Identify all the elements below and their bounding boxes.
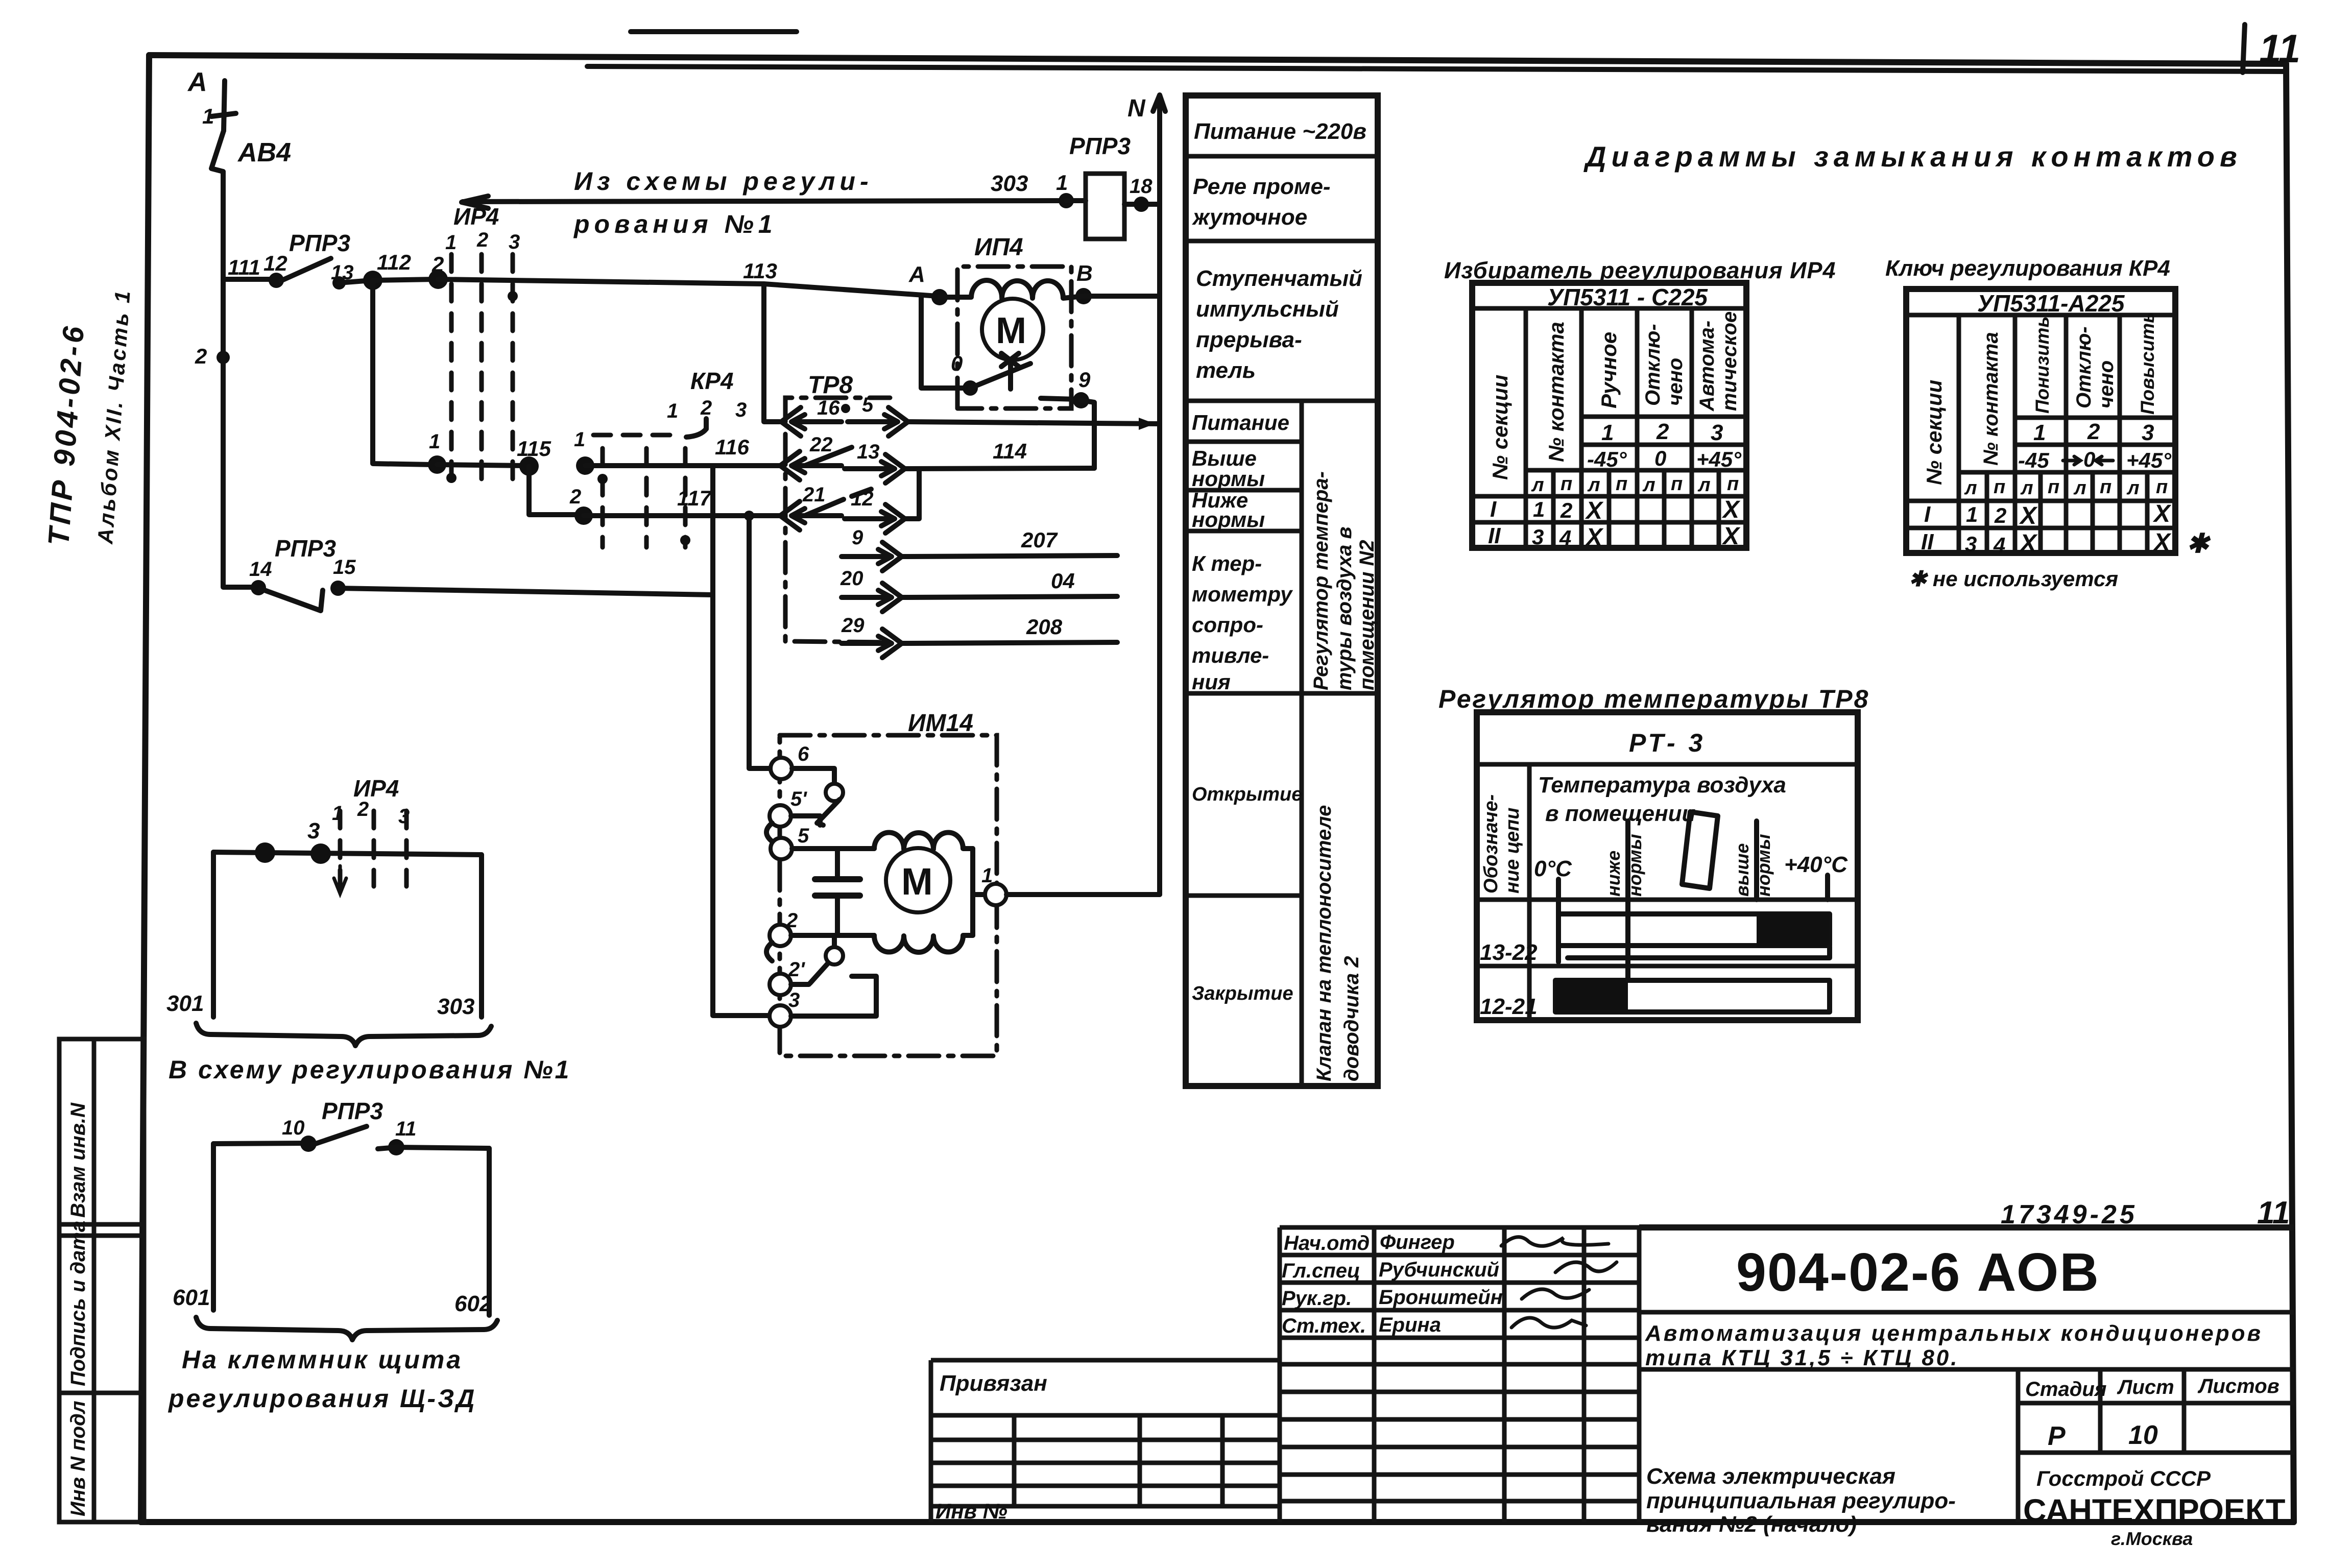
KR4 row1 node dot bbox=[576, 456, 594, 475]
upper winding of motor bbox=[874, 833, 973, 849]
rt3 header line bbox=[1477, 762, 1858, 767]
contact 21 blade bbox=[805, 499, 844, 516]
svg-text:Реле проме-: Реле проме- bbox=[1193, 174, 1331, 199]
small dot on IR4 column 3 bbox=[508, 291, 518, 301]
svg-text:нормы: нормы bbox=[1192, 508, 1265, 532]
contact RPR3 10-11 blade bbox=[313, 1126, 367, 1145]
terminal 1 circle bbox=[985, 884, 1006, 905]
svg-text:117: 117 bbox=[677, 486, 712, 510]
motor M of IP4 bbox=[982, 299, 1043, 360]
row line under thermometer bbox=[1186, 691, 1378, 696]
svg-text:1: 1 bbox=[445, 231, 457, 254]
table1 mini columns bbox=[1553, 470, 1719, 548]
terminal 2 circle bbox=[770, 925, 791, 946]
svg-text:3: 3 bbox=[1711, 420, 1723, 445]
terminal 6 circle bbox=[771, 758, 792, 779]
left margin vertical captions bbox=[42, 288, 135, 547]
svg-text:N: N bbox=[1127, 95, 1146, 122]
svg-text:п: п bbox=[2156, 476, 2168, 498]
signature table rows bbox=[1280, 1255, 1639, 1501]
node dot 9 bbox=[1073, 392, 1089, 408]
svg-text:6: 6 bbox=[798, 743, 809, 765]
svg-text:+45°: +45° bbox=[1696, 447, 1742, 471]
svg-text:116: 116 bbox=[715, 435, 750, 459]
svg-text:Схема электрическая: Схема электрическая bbox=[1646, 1464, 1895, 1489]
terminal 5 circle bbox=[771, 838, 792, 859]
svg-text:12-21: 12-21 bbox=[1480, 994, 1538, 1019]
wire loop2 top left bbox=[213, 1143, 305, 1144]
svg-text:3: 3 bbox=[307, 818, 320, 843]
svg-text:Обозначе-: Обозначе- bbox=[1480, 794, 1502, 894]
svg-text:2: 2 bbox=[2087, 419, 2100, 444]
svg-text:4: 4 bbox=[1559, 526, 1571, 550]
rt3 row line 1 bbox=[1477, 898, 1858, 902]
wire bus 111 bbox=[223, 277, 272, 282]
IP4 stator coil bbox=[940, 280, 1084, 298]
wire 117 bbox=[584, 513, 780, 518]
line under stage row bbox=[2018, 1451, 2294, 1455]
svg-text:11: 11 bbox=[395, 1118, 417, 1140]
svg-text:помещении N2: помещении N2 bbox=[1356, 540, 1378, 690]
wire 207 bbox=[902, 556, 1117, 557]
svg-text:Из схемы регули-: Из схемы регули- bbox=[574, 167, 873, 196]
svg-text:5: 5 bbox=[798, 825, 809, 847]
table2 column lines bbox=[1959, 315, 2120, 553]
svg-text:21: 21 bbox=[802, 484, 826, 506]
svg-text:18: 18 bbox=[1130, 175, 1153, 198]
wire N line bbox=[1157, 98, 1162, 895]
lower IR4 row node dot 1 bbox=[428, 455, 446, 474]
svg-text:2: 2 bbox=[195, 344, 207, 368]
svg-text:Взам инв.N: Взам инв.N bbox=[67, 1102, 89, 1218]
IP4 left bracket to 0 bbox=[921, 297, 964, 388]
contact 22 blade bbox=[805, 447, 852, 466]
svg-text:САНТЕХПРОЕКТ: САНТЕХПРОЕКТ bbox=[2023, 1493, 2285, 1529]
svg-text:2: 2 bbox=[1656, 419, 1669, 444]
svg-text:13-22: 13-22 bbox=[1480, 940, 1538, 965]
TP8 pin 21 arrow bbox=[780, 501, 800, 530]
svg-text:л: л bbox=[1642, 474, 1655, 496]
IM14 dash-dot box bbox=[780, 735, 997, 1056]
svg-text:0: 0 bbox=[1654, 446, 1666, 470]
svg-text:АВ4: АВ4 bbox=[237, 138, 291, 167]
svg-text:13: 13 bbox=[857, 441, 880, 463]
rt3 outer box bbox=[1477, 712, 1858, 1020]
wire 116 bbox=[585, 463, 780, 468]
svg-text:Отклю-: Отклю- bbox=[1642, 324, 1664, 406]
svg-text:X: X bbox=[1585, 497, 1604, 524]
rt3 row line 2 bbox=[1477, 964, 1858, 969]
wire loop1 top bbox=[213, 852, 482, 855]
svg-text:9: 9 bbox=[852, 526, 863, 549]
svg-text:л: л bbox=[1531, 474, 1544, 496]
table1 sub rows bbox=[1581, 417, 1746, 445]
svg-text:301: 301 bbox=[166, 991, 204, 1016]
svg-text:л: л bbox=[2126, 477, 2140, 499]
wire 04 bbox=[902, 596, 1117, 597]
svg-text:2: 2 bbox=[569, 486, 581, 508]
row line under relay bbox=[1186, 239, 1378, 244]
svg-text:2: 2 bbox=[431, 252, 444, 276]
wire 208 bbox=[902, 642, 1117, 643]
svg-text:II: II bbox=[1921, 529, 1934, 554]
svg-text:туры воздуха в: туры воздуха в bbox=[1333, 526, 1356, 690]
svg-text:№ секции: № секции bbox=[1922, 380, 1946, 485]
IR4 lower dashed columns bbox=[338, 811, 343, 886]
svg-text:п: п bbox=[1616, 473, 1627, 495]
contact RPR3 14-15 blade bbox=[260, 589, 323, 611]
svg-text:нормы: нормы bbox=[1192, 467, 1265, 491]
node dot 12 bbox=[269, 273, 284, 288]
node dot 14 bbox=[251, 580, 266, 595]
svg-text:А: А bbox=[187, 67, 207, 97]
svg-text:На клеммник щита: На клеммник щита bbox=[182, 1345, 463, 1374]
svg-text:2: 2 bbox=[476, 229, 488, 251]
svg-text:Избиратель регулирования ИР4: Избиратель регулирования ИР4 bbox=[1444, 257, 1836, 283]
svg-text:Гл.спец: Гл.спец bbox=[1282, 1260, 1360, 1282]
svg-text:№ секции: № секции bbox=[1488, 375, 1512, 480]
svg-text:мометру: мометру bbox=[1192, 582, 1293, 606]
svg-text:г.Москва: г.Москва bbox=[2111, 1528, 2193, 1549]
contact RPR3 12-13 blade bbox=[281, 258, 331, 281]
pinned rows bbox=[931, 1415, 1280, 1506]
svg-text:Листов: Листов bbox=[2197, 1375, 2279, 1397]
page number 11 top right bbox=[2243, 25, 2300, 73]
wire bus 113 across IR4 bbox=[438, 279, 938, 296]
relay coil RPR3 bbox=[1086, 174, 1124, 239]
wire drop 117 down to IM14 pin6 bbox=[749, 516, 770, 768]
svg-text:чено: чено bbox=[1664, 358, 1687, 406]
svg-text:3: 3 bbox=[1965, 532, 1977, 556]
left margin stamp boxes bbox=[59, 1039, 144, 1522]
svg-text:М: М bbox=[996, 310, 1026, 351]
svg-text:УП5311-А225: УП5311-А225 bbox=[1977, 290, 2125, 317]
svg-text:1: 1 bbox=[1601, 420, 1614, 445]
svg-text:принципиальная регулиро-: принципиальная регулиро- bbox=[1646, 1488, 1956, 1513]
svg-text:Питание ~220в: Питание ~220в bbox=[1194, 119, 1366, 144]
svg-text:Ручное: Ручное bbox=[1597, 332, 1621, 408]
row line under nizhe bbox=[1186, 529, 1302, 534]
svg-text:Регулятор температуры ТР8: Регулятор температуры ТР8 bbox=[1438, 685, 1869, 713]
svg-text:-45°: -45° bbox=[1587, 447, 1627, 471]
junction dot on 117 bbox=[744, 511, 754, 521]
svg-text:X: X bbox=[1721, 523, 1741, 550]
capacitor C plates bbox=[815, 879, 860, 896]
row line under power bbox=[1186, 154, 1378, 159]
upper switch circle bbox=[826, 784, 843, 801]
svg-text:X: X bbox=[1721, 496, 1741, 523]
svg-text:Фингер: Фингер bbox=[1380, 1231, 1455, 1253]
svg-text:Р: Р bbox=[2048, 1421, 2066, 1451]
node dot A bbox=[931, 289, 948, 305]
svg-text:1: 1 bbox=[1533, 497, 1545, 521]
svg-text:ИМ14: ИМ14 bbox=[908, 710, 973, 737]
svg-text:РПР3: РПР3 bbox=[275, 535, 336, 562]
node dot 2 bbox=[217, 351, 230, 364]
table2 outer box bbox=[1906, 289, 2175, 553]
table2 temp arrows bbox=[2063, 456, 2080, 465]
svg-text:29: 29 bbox=[841, 614, 865, 637]
svg-text:Регулятор темпера-: Регулятор темпера- bbox=[1310, 471, 1332, 690]
svg-text:II: II bbox=[1488, 523, 1501, 548]
lower winding of motor bbox=[874, 935, 973, 952]
svg-text:тическое: тическое bbox=[1718, 311, 1741, 411]
link arc 2-2' bbox=[766, 943, 772, 961]
table1 outer box bbox=[1472, 283, 1746, 548]
wire terminal 1 to N bbox=[1006, 892, 1160, 897]
svg-text:Закрытие: Закрытие bbox=[1192, 983, 1293, 1004]
svg-text:1: 1 bbox=[1966, 502, 1978, 526]
svg-text:0°С: 0°С bbox=[1534, 856, 1572, 881]
rt3 bar 13-22 baseline bbox=[1568, 947, 1830, 958]
rt3 tick vyshe bbox=[1754, 821, 1759, 900]
svg-text:10: 10 bbox=[2128, 1420, 2158, 1450]
stage columns bbox=[2018, 1369, 2184, 1522]
svg-text:20: 20 bbox=[840, 567, 863, 590]
wire loop2 right leg 602 bbox=[487, 1148, 492, 1315]
stamp line under theme bbox=[1639, 1367, 2294, 1372]
svg-text:5': 5' bbox=[790, 788, 807, 810]
svg-text:Ключ регулирования КР4: Ключ регулирования КР4 bbox=[1885, 256, 2170, 281]
node dot 2 on bus bbox=[428, 270, 448, 289]
wire bus 112 to IR4 bbox=[373, 279, 435, 280]
row line under interrupter bbox=[1186, 399, 1378, 403]
svg-text:10: 10 bbox=[282, 1117, 305, 1139]
wire terminal 2' stub bbox=[791, 982, 809, 987]
svg-text:4: 4 bbox=[1993, 533, 2005, 557]
terminal 2' circle bbox=[770, 974, 791, 995]
wire drop 113 to TP8 pin 16 bbox=[764, 284, 780, 422]
svg-text:чено: чено bbox=[2095, 360, 2118, 408]
down arrow on col1 bbox=[334, 866, 346, 894]
svg-text:К тер-: К тер- bbox=[1192, 551, 1262, 575]
small dot on KR4 col3 bbox=[680, 535, 690, 545]
wire loop1 right leg 303 bbox=[479, 855, 484, 1017]
wire phase A drop bbox=[224, 81, 225, 131]
svg-text:ниже: ниже bbox=[1603, 851, 1624, 897]
node dot on loop1 bbox=[255, 842, 275, 863]
svg-text:112: 112 bbox=[377, 250, 411, 274]
svg-text:в помещении: в помещении bbox=[1545, 801, 1696, 826]
svg-text:2: 2 bbox=[1560, 498, 1572, 522]
svg-text:114: 114 bbox=[993, 439, 1027, 463]
brace under loop1 bbox=[196, 1023, 491, 1046]
wire 114 bbox=[905, 468, 1094, 469]
svg-text:ния: ния bbox=[1192, 670, 1231, 694]
rt3 bar 13-22 fill bbox=[1757, 913, 1830, 947]
rt3 bar 12-21 fill bbox=[1555, 979, 1628, 1013]
wire AB4 down to contact 14 bbox=[223, 172, 254, 587]
node dot 10 bbox=[300, 1136, 317, 1152]
svg-text:ИП4: ИП4 bbox=[974, 234, 1023, 261]
svg-text:602: 602 bbox=[454, 1291, 492, 1316]
terminal 3 circle bbox=[770, 1005, 791, 1027]
breaker AB4 blade bbox=[211, 131, 224, 172]
main stamp outer bbox=[1639, 1224, 2294, 1231]
node dot 112 bbox=[363, 271, 382, 290]
node dot 3 on loop1 bbox=[310, 843, 331, 864]
svg-text:выше: выше bbox=[1732, 843, 1753, 897]
svg-text:904-02-6 АОВ: 904-02-6 АОВ bbox=[1736, 1242, 2100, 1302]
svg-text:3: 3 bbox=[509, 231, 520, 253]
rt3 tick nizhe bbox=[1625, 821, 1630, 900]
svg-text:Ступенчатый: Ступенчатый bbox=[1196, 266, 1362, 291]
wire terminal 2 to coil bbox=[791, 933, 874, 938]
svg-text:Питание: Питание bbox=[1192, 411, 1289, 435]
svg-text:601: 601 bbox=[173, 1285, 210, 1310]
svg-text:Бронштейн: Бронштейн bbox=[1379, 1286, 1503, 1309]
stage header line bbox=[2018, 1401, 2294, 1406]
svg-text:п: п bbox=[1994, 476, 2005, 498]
wire to coil bbox=[1066, 198, 1086, 203]
wire B to N bbox=[1084, 294, 1160, 299]
svg-text:303: 303 bbox=[437, 994, 474, 1019]
node dot 18 bbox=[1134, 197, 1149, 212]
svg-text:111: 111 bbox=[228, 255, 260, 279]
rt3 bar 13-22 outline bbox=[1558, 914, 1830, 946]
svg-text:вания №2 (начало): вания №2 (начало) bbox=[1646, 1512, 1857, 1537]
row line under otkrytie bbox=[1186, 894, 1302, 898]
svg-text:№ контакта: № контакта bbox=[1980, 332, 2002, 466]
svg-text:Понизить: Понизить bbox=[2032, 316, 2053, 414]
lower switch circle bbox=[826, 947, 843, 964]
svg-text:РПР3: РПР3 bbox=[1069, 133, 1131, 159]
wire terminal 5' stub bbox=[791, 816, 820, 825]
svg-text:п: п bbox=[1561, 473, 1572, 495]
svg-text:л: л bbox=[1697, 474, 1711, 496]
svg-text:113: 113 bbox=[743, 259, 777, 283]
IP4 dash-dot box bbox=[957, 267, 1071, 408]
node dot B bbox=[1075, 288, 1092, 304]
fixed contact wire to 9 bbox=[1041, 398, 1076, 399]
wire 5 to N line bbox=[908, 422, 1160, 424]
rt3 tick +40 bbox=[1825, 875, 1830, 900]
svg-text:3: 3 bbox=[1532, 525, 1544, 549]
wire coil to N bbox=[1124, 202, 1159, 207]
svg-text:п: п bbox=[1727, 473, 1739, 495]
table2 mini columns bbox=[1987, 472, 2147, 553]
rt3 left column divider bbox=[1527, 764, 1532, 1020]
svg-text:Подпись и дата: Подпись и дата bbox=[67, 1221, 89, 1386]
svg-text:РПР3: РПР3 bbox=[322, 1098, 383, 1124]
wire loop2 left leg 601 bbox=[211, 1144, 216, 1310]
wire drop 116 down to IM14 pin3 bbox=[713, 466, 769, 1016]
svg-text:3: 3 bbox=[2142, 420, 2154, 445]
svg-text:X: X bbox=[2152, 529, 2172, 556]
svg-text:Открытие: Открытие bbox=[1192, 784, 1302, 805]
svg-text:л: л bbox=[1964, 477, 1977, 499]
centrifugal switch symbol bbox=[1008, 360, 1013, 389]
KR4 linkage dashes bbox=[593, 433, 676, 438]
pinned columns bbox=[1014, 1415, 1222, 1506]
svg-text:✱ не используется: ✱ не используется bbox=[1909, 567, 2118, 591]
wire terminal 6 to lamp switch bbox=[792, 768, 834, 784]
rt3 tick nizhe extension bbox=[1625, 900, 1630, 979]
svg-text:Диаграммы замыкания контак: Диаграммы замыкания контактов bbox=[1583, 140, 2242, 173]
svg-text:X: X bbox=[1585, 524, 1604, 551]
lower switch stem bbox=[832, 935, 837, 948]
svg-text:22: 22 bbox=[809, 433, 833, 456]
TP8 pin 22 arrow bbox=[780, 451, 800, 480]
svg-text:Инв N подл: Инв N подл bbox=[67, 1401, 89, 1516]
svg-text:208: 208 bbox=[1026, 615, 1063, 639]
svg-text:№ контакта: № контакта bbox=[1544, 322, 1568, 462]
svg-text:п: п bbox=[1671, 473, 1683, 495]
wire terminal 5 to coil bbox=[792, 846, 874, 851]
table2 sub rows bbox=[2015, 418, 2175, 445]
pinned box bbox=[931, 1360, 1280, 1522]
svg-text:Отклю-: Отклю- bbox=[2073, 326, 2095, 408]
upper switch blade bbox=[817, 800, 839, 825]
wire 13 to 112 bbox=[339, 280, 372, 283]
wire loop1 left leg 301 bbox=[211, 852, 216, 1017]
KR4 dashed contact columns bbox=[601, 448, 605, 547]
svg-text:п: п bbox=[2100, 476, 2111, 498]
svg-text:I: I bbox=[1924, 502, 1931, 527]
svg-text:1: 1 bbox=[429, 430, 440, 453]
small dot on KR4 col1 bbox=[597, 474, 608, 484]
svg-text:п: п bbox=[2048, 476, 2059, 498]
link arc 5'-5 bbox=[766, 823, 772, 841]
svg-text:тель: тель bbox=[1196, 358, 1256, 383]
motor M of IM14 bbox=[886, 848, 950, 912]
rt3 bar 12-21 outline bbox=[1555, 980, 1830, 1012]
svg-text:14: 14 bbox=[249, 558, 272, 581]
signature table box bbox=[1280, 1227, 1639, 1522]
legend table outer box bbox=[1186, 95, 1378, 1086]
svg-text:207: 207 bbox=[1021, 528, 1058, 552]
svg-text:Привязан: Привязан bbox=[940, 1371, 1047, 1396]
wire to terminal 1 bbox=[973, 892, 985, 897]
inner column divider bbox=[1300, 401, 1304, 1086]
wire terminal 3 to riser bbox=[791, 976, 876, 1016]
svg-text:доводчика 2: доводчика 2 bbox=[1340, 956, 1363, 1081]
capacitor C stems bbox=[835, 849, 840, 935]
node dot 0 bbox=[963, 380, 978, 396]
node dot 303-1 bbox=[1059, 193, 1074, 208]
svg-text:16: 16 bbox=[817, 397, 840, 419]
row line under pitanie bbox=[1186, 440, 1302, 444]
centrifugal switch blade bbox=[970, 364, 1030, 388]
table1 column lines bbox=[1526, 308, 1692, 548]
svg-text:+45°: +45° bbox=[2126, 448, 2172, 472]
svg-text:Лист: Лист bbox=[2117, 1376, 2174, 1398]
wire 303 from scheme 1 bbox=[463, 201, 1063, 202]
wire 9 down to wire 114 bbox=[1081, 400, 1094, 468]
svg-text:0: 0 bbox=[2083, 447, 2095, 471]
svg-text:X: X bbox=[2152, 500, 2172, 527]
svg-text:0: 0 bbox=[951, 351, 963, 375]
svg-text:Нач.отд: Нач.отд bbox=[1284, 1232, 1370, 1255]
svg-text:X: X bbox=[2019, 530, 2038, 557]
svg-text:тивле-: тивле- bbox=[1192, 643, 1269, 667]
svg-text:12: 12 bbox=[851, 488, 874, 510]
svg-text:Ст.тех.: Ст.тех. bbox=[1282, 1315, 1366, 1337]
svg-text:✱: ✱ bbox=[2187, 529, 2211, 559]
svg-text:9: 9 bbox=[1078, 368, 1091, 392]
svg-text:прерыва-: прерыва- bbox=[1196, 327, 1302, 352]
svg-text:А: А bbox=[908, 262, 925, 287]
svg-text:-45: -45 bbox=[2018, 448, 2049, 472]
svg-text:РТ- 3: РТ- 3 bbox=[1629, 729, 1706, 757]
wire 115 drop to KR4 row 2 bbox=[529, 466, 580, 515]
svg-text:типа КТЦ 31,5 ÷ КТЦ 80.: типа КТЦ 31,5 ÷ КТЦ 80. bbox=[1645, 1345, 1959, 1370]
svg-text:04: 04 bbox=[1051, 569, 1075, 593]
svg-text:КР4: КР4 bbox=[690, 368, 734, 394]
svg-text:2: 2 bbox=[700, 397, 712, 419]
svg-text:2: 2 bbox=[357, 798, 369, 821]
rt3 tick 0 bbox=[1556, 879, 1561, 962]
